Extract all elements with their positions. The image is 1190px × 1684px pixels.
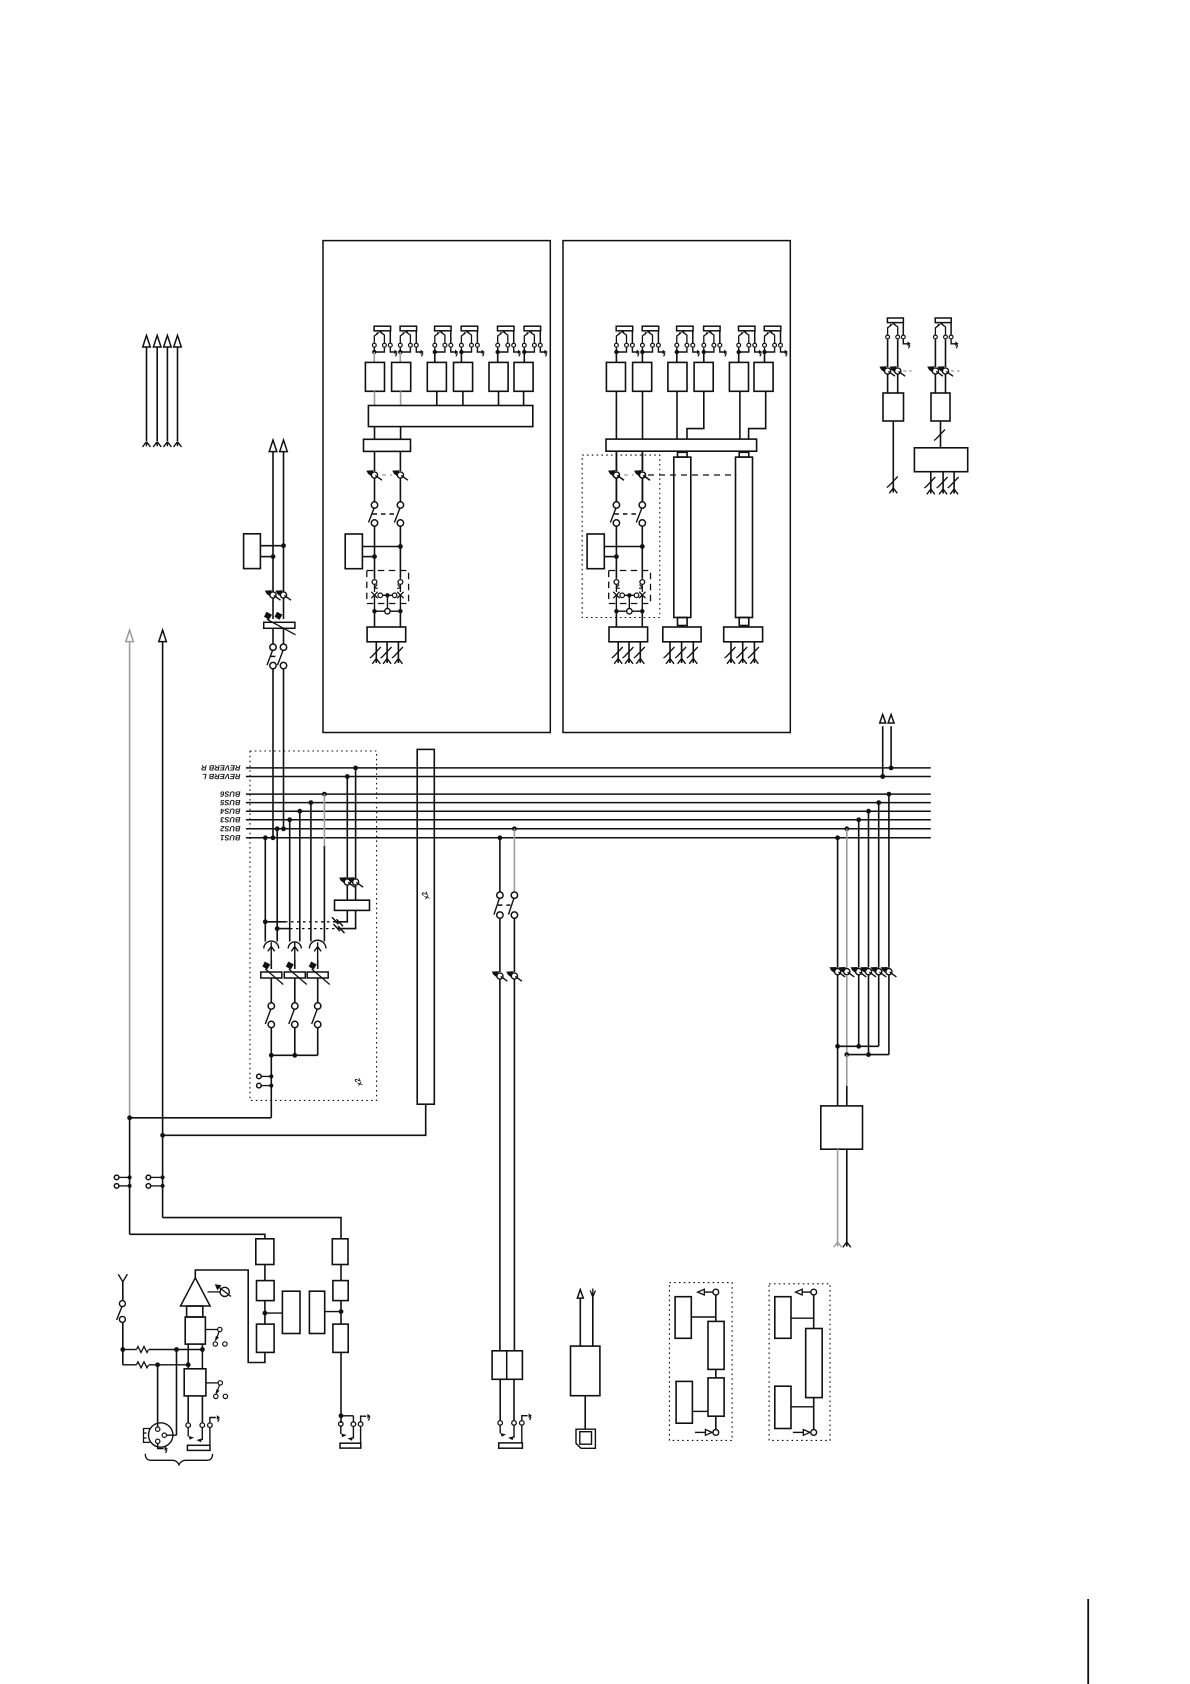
- cable mark: [392, 647, 403, 658]
- pot phones level: [881, 967, 897, 977]
- wire: [838, 1045, 879, 1047]
- junction: [866, 1052, 871, 1057]
- wire: [846, 1086, 848, 1106]
- wire: [604, 546, 642, 548]
- junction on bus: [275, 826, 280, 831]
- wire: [813, 1398, 815, 1430]
- brace MIC/LINE group: [145, 1454, 212, 1465]
- off-sheet terminal: [174, 442, 182, 447]
- block head amp CH9: [729, 362, 748, 391]
- connector XLR MIC IN: [144, 1423, 173, 1447]
- label REVERB R: [201, 765, 240, 770]
- switch pad 1: [205, 1327, 227, 1346]
- wire: [592, 1297, 594, 1346]
- connector input jack CH7: [675, 326, 701, 356]
- label BUS3: [220, 817, 240, 822]
- junction: [385, 593, 389, 597]
- wire: [294, 1028, 296, 1056]
- block graphic fader A: [674, 457, 691, 617]
- pot ST level R: [275, 590, 291, 600]
- wire: [615, 391, 617, 439]
- junction on REVERB L: [880, 774, 885, 779]
- wire: [325, 1311, 341, 1313]
- block head amp CH8: [694, 362, 713, 391]
- junction: [627, 593, 631, 597]
- resistor R2: [137, 1362, 149, 1368]
- terminal return: [811, 1430, 817, 1436]
- junction: [161, 1175, 165, 1179]
- off-sheet terminal: [394, 659, 402, 664]
- wire: [791, 1317, 814, 1319]
- junction on bus: [887, 792, 892, 797]
- wire: [498, 391, 500, 405]
- cable mark: [934, 430, 945, 441]
- wire: [897, 339, 899, 367]
- wire: [317, 1028, 319, 1056]
- node mix point 3: [309, 940, 326, 948]
- wire: [264, 1265, 266, 1281]
- contact PFL: [385, 609, 390, 614]
- junction on bus: [835, 835, 840, 840]
- cable mark: [736, 647, 747, 658]
- pot rec level L: [492, 971, 508, 981]
- off-sheet terminal: [383, 659, 391, 664]
- wire phantom feed 1: [123, 1349, 137, 1351]
- wire: [317, 960, 319, 970]
- connector input jack CH3: [433, 326, 459, 356]
- cable mark: [664, 647, 675, 658]
- node TAPE IN 4 arrow: [174, 335, 182, 347]
- terminal circle: [257, 1074, 262, 1079]
- contact ring: [508, 1436, 513, 1440]
- wire: [641, 478, 643, 502]
- switch on/off ST: [610, 502, 645, 526]
- wire: [374, 596, 376, 612]
- switch on/off CH1/2: [369, 502, 404, 526]
- off-sheet terminal: [739, 659, 747, 664]
- off-sheet terminal: [666, 659, 674, 664]
- wire: [375, 642, 377, 663]
- off-sheet terminal: [614, 659, 622, 664]
- wire: [272, 669, 274, 838]
- pot level L CH1/2: [366, 470, 382, 480]
- junction: [120, 1347, 125, 1352]
- junction on REVERB L: [345, 774, 350, 779]
- junction on bus: [856, 817, 861, 822]
- wire: [499, 1379, 501, 1420]
- bus REVERB R: [246, 767, 931, 769]
- connector DC jack: [576, 1429, 595, 1448]
- junction: [161, 1184, 165, 1188]
- block power supply: [571, 1346, 600, 1396]
- wire: [687, 391, 704, 439]
- junction: [269, 1084, 273, 1088]
- node TAPE IN 2 arrow: [153, 335, 161, 347]
- connector input jack CH6: [522, 326, 548, 356]
- wire: [201, 1344, 203, 1369]
- wire: [264, 838, 266, 942]
- label x2: [354, 1077, 362, 1087]
- wire: [615, 526, 617, 579]
- wire: [882, 726, 884, 776]
- wire (gray): [513, 829, 515, 892]
- cable mark: [948, 477, 959, 488]
- junction: [844, 1052, 849, 1057]
- node to reverb unit R: [888, 715, 894, 724]
- connector input jack CH2: [398, 326, 424, 356]
- block return buffer: [676, 1381, 692, 1423]
- junction: [155, 1362, 160, 1367]
- wire: [352, 1416, 354, 1422]
- switch pad 2: [206, 1381, 228, 1399]
- wire: [868, 811, 870, 968]
- off-sheet terminal: [727, 659, 735, 664]
- junction on BUS1: [498, 835, 503, 840]
- bus BUS2: [246, 828, 931, 830]
- wire: [897, 374, 899, 393]
- wire: [151, 1176, 163, 1178]
- wire: [355, 885, 357, 900]
- wire: [374, 451, 376, 471]
- pot return level 2: [937, 366, 953, 376]
- contact: [513, 1425, 515, 1438]
- cable mark: [937, 477, 948, 488]
- contact tip: [189, 1436, 195, 1440]
- off-sheet terminal: [143, 442, 151, 447]
- switch rec out: [494, 892, 518, 918]
- gang link: [285, 921, 333, 923]
- junction: [372, 609, 376, 613]
- arrow: [529, 1413, 532, 1420]
- wire: [323, 846, 325, 942]
- cable mark: [381, 647, 392, 658]
- wire: [738, 352, 740, 362]
- wire: [167, 1434, 177, 1436]
- junction: [269, 1053, 274, 1058]
- label x2: [421, 891, 429, 901]
- wire: [272, 628, 274, 644]
- off-sheet terminal: [678, 659, 686, 664]
- pot phones level: [839, 967, 855, 977]
- block monitor L 2: [257, 1281, 275, 1301]
- wire 2TR L (gray): [129, 642, 131, 1118]
- block mid amp 1: [708, 1321, 724, 1369]
- wire: [360, 1426, 362, 1443]
- terminal circle: [146, 1184, 151, 1189]
- wire: [669, 642, 671, 663]
- off-sheet terminal: [636, 659, 644, 664]
- contact: [499, 1425, 501, 1433]
- junction: [640, 544, 645, 549]
- connector input jack CH10: [762, 326, 788, 356]
- junction: [174, 1347, 179, 1352]
- wire: [157, 1365, 159, 1427]
- jack sleeve bar: [340, 1443, 361, 1448]
- block fader stub bottom B: [739, 618, 749, 626]
- gang link: [624, 474, 634, 476]
- wire: [604, 556, 616, 558]
- connector LINE IN jack: [186, 1423, 191, 1428]
- off-sheet terminal: [889, 488, 897, 493]
- bus BUS4: [246, 810, 931, 812]
- block monitor L 1: [256, 1239, 274, 1265]
- wire: [692, 1410, 708, 1412]
- wire: [499, 979, 501, 1351]
- box stereo master section: [582, 455, 660, 617]
- fader bus master 3: [307, 962, 330, 985]
- block head amp CH10: [754, 362, 773, 391]
- junction on BUS2: [512, 826, 517, 831]
- wire: [521, 1425, 523, 1443]
- pot level R ST: [634, 470, 650, 480]
- wire: [742, 642, 744, 663]
- terminal circle: [257, 1083, 262, 1088]
- wire: [632, 610, 642, 612]
- wire: [858, 975, 860, 1046]
- block send amp: [675, 1297, 691, 1339]
- wire: [628, 595, 630, 608]
- switch mute contacts ST: [613, 585, 645, 599]
- wire: [374, 611, 376, 627]
- wire: [399, 478, 401, 502]
- wire: [715, 1369, 717, 1378]
- contact: [340, 1426, 342, 1434]
- junction: [614, 554, 619, 559]
- wire: [122, 1322, 124, 1364]
- bus REVERB L: [246, 776, 931, 778]
- block output amp A: [663, 627, 701, 642]
- wire: [163, 1218, 341, 1239]
- wire: [374, 391, 376, 405]
- block return amp: [806, 1329, 823, 1398]
- block monitor R 2: [333, 1281, 348, 1301]
- label BUS4: [220, 809, 240, 814]
- contact: [614, 580, 619, 585]
- junction: [271, 554, 276, 559]
- wire: [715, 1295, 717, 1321]
- wire: [641, 611, 643, 627]
- node phantom source: [118, 1274, 127, 1282]
- block divider: [506, 1351, 508, 1380]
- wire 2TR R: [162, 642, 164, 1218]
- junction: [398, 609, 402, 613]
- wire: [615, 596, 617, 612]
- wire: [346, 885, 348, 900]
- junction: [372, 554, 377, 559]
- wire: [209, 1428, 211, 1446]
- wire: [362, 556, 374, 558]
- wire: [749, 391, 766, 439]
- label BUS5: [220, 800, 240, 805]
- switch ST assign: [267, 644, 287, 669]
- wire: [361, 1416, 367, 1422]
- wire: [272, 598, 274, 619]
- wire phantom feed 2: [123, 1364, 137, 1366]
- off-sheet terminal: [153, 442, 161, 447]
- wire: [522, 1416, 528, 1421]
- block head amp CH3: [427, 362, 446, 391]
- wire: [270, 960, 272, 970]
- wire: [261, 1075, 271, 1077]
- wire: [400, 391, 402, 405]
- wire: [187, 1344, 189, 1369]
- block reverb master fader: [335, 900, 370, 910]
- box mute section CH1/2: [367, 571, 409, 604]
- junction: [640, 609, 644, 613]
- block head amp CH5: [489, 362, 508, 391]
- connector input jack CH4: [459, 326, 485, 356]
- cable mark: [334, 924, 345, 933]
- junction on bus: [263, 835, 268, 840]
- wire: [739, 391, 741, 439]
- pot ST level L: [265, 590, 281, 600]
- wire: [791, 1406, 814, 1408]
- switch phantom: [117, 1301, 126, 1323]
- cable mark: [623, 647, 634, 658]
- switch bus on/off: [312, 1003, 321, 1028]
- junction: [128, 1184, 132, 1188]
- block x2 mix amp: [417, 749, 434, 1104]
- cable mark: [725, 647, 736, 658]
- switch bus on/off: [265, 1003, 274, 1028]
- off-sheet terminal: [689, 659, 697, 664]
- wire: [642, 478, 644, 502]
- junction on BUS2: [281, 826, 286, 831]
- wire: [523, 352, 525, 362]
- off-sheet terminal: [834, 1242, 842, 1247]
- wire: [888, 975, 890, 1055]
- pot phones level: [860, 967, 876, 977]
- pot return level 1: [879, 366, 895, 376]
- node ST channel feed 2 arrow: [280, 440, 288, 452]
- wire: [837, 838, 839, 968]
- off-sheet terminal: [843, 1242, 851, 1247]
- off-sheet terminal: [950, 489, 958, 494]
- cable mark: [887, 477, 898, 488]
- wire: [270, 1028, 272, 1056]
- arrow: [367, 1414, 370, 1421]
- wire: [691, 1316, 716, 1318]
- junction: [339, 1309, 344, 1314]
- cable mark: [675, 647, 686, 658]
- junction on bus: [322, 792, 327, 797]
- wire: [283, 452, 285, 592]
- switch mute contacts CH1/2: [371, 585, 403, 599]
- block monitor R 1: [332, 1239, 348, 1265]
- wire: [176, 1350, 178, 1436]
- wire: [399, 596, 401, 612]
- wire: [294, 978, 296, 1003]
- wire: [362, 546, 400, 548]
- junction: [398, 544, 403, 549]
- block pan CH1/2: [345, 534, 362, 569]
- junction: [160, 1133, 165, 1138]
- wire: [615, 478, 617, 502]
- op-amp mic preamp: [181, 1278, 211, 1306]
- wire: [642, 391, 644, 439]
- wire: [195, 1270, 265, 1363]
- wire: [149, 1349, 202, 1351]
- wire: [156, 347, 158, 441]
- terminal return: [713, 1430, 719, 1436]
- connector RETURN jack 2: [934, 318, 959, 348]
- wire: [158, 1444, 164, 1449]
- bus BUS6: [246, 793, 931, 795]
- block amp stage 1: [187, 1306, 203, 1317]
- jack sleeve bar: [187, 1445, 210, 1450]
- gang link to faders: [648, 474, 736, 476]
- wire: [846, 1149, 848, 1246]
- off-sheet terminal: [625, 659, 633, 664]
- wire: [641, 584, 643, 592]
- off-sheet terminal: [927, 489, 935, 494]
- block EQ 1: [364, 439, 411, 451]
- block monitor R 3: [333, 1324, 348, 1352]
- junction on bus: [297, 809, 302, 814]
- wire: [289, 820, 291, 942]
- junction on bus: [287, 817, 292, 822]
- block footswitch logic: [914, 448, 967, 472]
- wire: [270, 1055, 272, 1118]
- block head amp CH4: [454, 362, 473, 391]
- wire: [166, 347, 168, 441]
- junction: [275, 926, 280, 931]
- terminal circle: [146, 1175, 151, 1180]
- wire: [615, 451, 617, 471]
- wire: [858, 820, 860, 968]
- block fader stub top A: [678, 452, 688, 457]
- wire: [579, 1299, 581, 1347]
- wire: [261, 1085, 271, 1087]
- wire: [119, 1185, 130, 1187]
- wire: [341, 1415, 353, 1417]
- label BUS2: [220, 826, 240, 831]
- junction: [339, 1413, 344, 1418]
- gang link: [290, 928, 337, 930]
- wire: [390, 610, 400, 612]
- wire: [283, 628, 285, 644]
- node mix point 1: [264, 941, 279, 948]
- wire: [942, 472, 944, 494]
- cable mark: [370, 647, 381, 658]
- contact: [352, 1426, 354, 1438]
- wire: [513, 1379, 515, 1420]
- wire: [149, 1364, 188, 1366]
- block summing bus 1: [368, 406, 532, 427]
- wire: [317, 978, 319, 1003]
- terminal send: [713, 1289, 719, 1295]
- arrow chassis: [165, 1446, 168, 1453]
- label BUS6: [220, 791, 240, 796]
- fader bus master 2: [284, 962, 307, 985]
- connector RETURN jack 1: [886, 318, 911, 348]
- gang link: [951, 370, 960, 372]
- contact ring: [348, 1437, 354, 1441]
- junction on REVERB R: [889, 766, 894, 771]
- block mid amp 2: [708, 1378, 724, 1416]
- wire: [310, 803, 312, 942]
- wire: [201, 1396, 203, 1423]
- pot phones level: [829, 967, 845, 977]
- wire: [642, 451, 644, 471]
- contact: [398, 580, 403, 585]
- wire: [641, 596, 643, 612]
- wire: [945, 339, 947, 367]
- wire: [940, 421, 942, 448]
- wire: [641, 451, 643, 471]
- wire: [122, 1282, 124, 1301]
- junction: [281, 543, 286, 548]
